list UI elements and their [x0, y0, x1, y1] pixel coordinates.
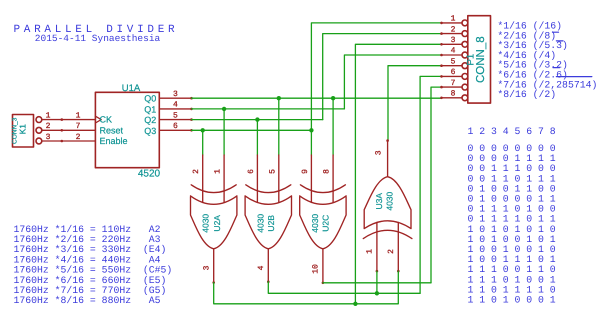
svg-text:3: 3	[451, 36, 456, 45]
svg-text:10: 10	[311, 264, 320, 274]
svg-text:Q3: Q3	[144, 126, 156, 136]
overline bar for /2.6 repeating	[553, 67, 560, 69]
U1A output pin numbers 3 4 5 6	[173, 90, 178, 131]
wire drop to U2A pin1	[223, 109, 225, 155]
XOR gate U2A body	[191, 185, 237, 249]
frequency table notes	[14, 224, 173, 306]
U1A clock input triangle	[95, 116, 101, 123]
wire net Q3 horizontal	[192, 129, 312, 131]
svg-text:CK: CK	[100, 115, 113, 125]
U2C input pins red	[311, 155, 333, 283]
wire U2A output down and right to U3A.2	[214, 271, 399, 304]
net label *1/16 (/16)	[497, 21, 597, 101]
svg-text:CONN_3: CONN_3	[12, 117, 19, 144]
IC U1A 4520 body	[95, 92, 159, 167]
svg-text:1: 1	[451, 15, 456, 24]
XOR gate U3A body pointing up	[363, 177, 412, 239]
U2B pin numbers 6 5 4 rotated	[247, 169, 277, 271]
junction Q0 to U2B.5	[277, 96, 281, 100]
svg-text:Q1: Q1	[144, 104, 156, 114]
U3A pin end dots	[376, 139, 400, 272]
svg-text:2: 2	[76, 133, 81, 142]
svg-text:4520: 4520	[138, 169, 161, 180]
junction Q3 to U2A.2	[201, 128, 205, 132]
svg-text:1 1 0 1 0 0 0 1: 1 1 0 1 0 0 0 1	[468, 295, 556, 306]
XOR gate U2B body	[245, 185, 291, 249]
wire drop to U2B pin6	[256, 120, 258, 155]
svg-text:U2B: U2B	[266, 215, 276, 232]
stray overline mark after /8 row	[553, 31, 559, 33]
junction U2B output net to U3A.1	[375, 291, 379, 295]
P1 pin numbers 1-8	[451, 15, 456, 99]
svg-text:2015-4-11 Synaesthesia: 2015-4-11 Synaesthesia	[35, 33, 161, 44]
wire riser P1 pin2 from Q2	[323, 34, 442, 120]
svg-text:8: 8	[322, 169, 331, 174]
svg-text:1: 1	[76, 111, 81, 120]
wire riser P1 pin4 from Q1	[344, 55, 441, 109]
svg-text:4: 4	[257, 265, 266, 270]
junction U2A output net to P1 pin3 riser	[353, 302, 357, 306]
wire riser P1 pin6 from U2B output net	[420, 76, 441, 293]
svg-text:3: 3	[374, 150, 383, 155]
wire riser P1 pin3 from U2A output net	[355, 44, 441, 304]
svg-text:K1: K1	[18, 124, 28, 135]
junction Q0 to U2C.8	[331, 96, 335, 100]
truth table rows	[468, 143, 556, 306]
P1 pin end dots	[440, 22, 443, 100]
connector P1 CONN_8 body	[462, 16, 491, 103]
U3A pin numbers 1 2 3 rotated	[365, 150, 395, 254]
U1A output pins Q0-Q3 red stubs	[159, 98, 191, 130]
wire net Q0 horizontal to P1 pin8	[192, 97, 442, 99]
junction Q2 to U2B.6	[255, 117, 259, 121]
U2B output pin end dot	[267, 280, 270, 283]
svg-text:4030: 4030	[255, 214, 265, 233]
wire drop to U2B pin5	[278, 98, 280, 155]
U1A left pin numbers 1 7 2	[76, 111, 81, 141]
U3A pins red	[377, 141, 398, 272]
svg-text:3: 3	[203, 265, 212, 270]
svg-text:U1A: U1A	[122, 83, 141, 94]
U2A output pin end dot	[212, 281, 215, 284]
overline bar for /5.3 repeating	[556, 40, 563, 42]
svg-text:4030: 4030	[310, 214, 320, 233]
U2B input pins red	[257, 155, 278, 282]
wire U2C output down and right to P1 pin7 riser	[323, 282, 431, 284]
XOR gate U2C body	[300, 185, 346, 249]
K1 pin numbers 1 2 3	[46, 111, 51, 141]
svg-text:U2A: U2A	[212, 215, 222, 232]
wire riser P1 pin7 from U2C output net	[431, 87, 442, 283]
svg-text:2: 2	[451, 25, 456, 34]
svg-text:3: 3	[173, 90, 178, 99]
svg-text:5: 5	[268, 169, 277, 174]
wire U2B output down and right to P1 pin6 riser	[268, 282, 420, 294]
U2A input pins red	[203, 155, 224, 283]
svg-text:1: 1	[214, 169, 223, 174]
svg-text:U2C: U2C	[320, 215, 330, 232]
svg-text:6: 6	[247, 169, 256, 174]
wire K1.2 to U1A.Reset	[42, 129, 96, 131]
wire net Q1 horizontal	[192, 108, 345, 110]
svg-text:1: 1	[365, 249, 374, 254]
svg-text:4030: 4030	[201, 214, 211, 233]
svg-text:U3A: U3A	[374, 193, 384, 210]
svg-text:7: 7	[76, 122, 81, 131]
connector K1 CONN_3 body	[13, 115, 42, 148]
svg-text:2: 2	[387, 249, 396, 254]
wire K1.3 to U1A.Enable	[42, 140, 96, 142]
svg-text:Q2: Q2	[144, 115, 156, 125]
wire net Q2 horizontal	[192, 119, 323, 121]
svg-text:7: 7	[451, 79, 456, 88]
svg-text:1 2 3 4 5 6 7 8: 1 2 3 4 5 6 7 8	[468, 126, 556, 137]
wire riser P1 pin5 from U3A output	[388, 66, 442, 141]
svg-text:2: 2	[192, 169, 201, 174]
U2C output pin end dot	[322, 282, 325, 285]
junction Q3 to P1.1/U2C.9	[309, 128, 313, 132]
wire drop to U2C pin8	[332, 98, 334, 155]
svg-text:8: 8	[451, 90, 456, 99]
U2A pin numbers 2 1 3 rotated	[192, 169, 222, 271]
svg-text:4: 4	[173, 101, 178, 110]
svg-text:6: 6	[173, 122, 178, 131]
overline bar for /2,285714 repeating	[556, 76, 591, 78]
svg-text:CONN_8: CONN_8	[475, 36, 487, 83]
junction Q1 to U2A.1	[222, 107, 226, 111]
svg-text:5: 5	[173, 111, 178, 120]
U1A output pin end dots	[190, 97, 193, 132]
wire drop to U2A pin2	[202, 130, 204, 155]
svg-text:Enable: Enable	[100, 136, 128, 146]
svg-text:4: 4	[451, 47, 456, 56]
P1 pin stubs red	[442, 23, 463, 98]
svg-text:Reset: Reset	[100, 125, 124, 135]
svg-text:1760Hz *8/16 = 880Hz A5: 1760Hz *8/16 = 880Hz A5	[14, 295, 161, 306]
wire riser and drop P1 pin1 to Q3 and U2C pin9	[311, 23, 441, 155]
svg-text:6: 6	[451, 68, 456, 77]
svg-text:*8/16 (/2): *8/16 (/2)	[497, 89, 556, 100]
svg-text:5: 5	[451, 57, 456, 66]
pin end dots on K1 wires	[61, 118, 64, 142]
wire U3A.1 down to U2B output net	[376, 271, 378, 293]
U2C pin numbers 9 8 10 rotated	[301, 169, 331, 274]
svg-text:4030: 4030	[385, 191, 395, 210]
wire K1.1 to U1A.CK	[42, 119, 96, 121]
svg-text:Q0: Q0	[144, 94, 156, 104]
svg-text:9: 9	[301, 169, 310, 174]
